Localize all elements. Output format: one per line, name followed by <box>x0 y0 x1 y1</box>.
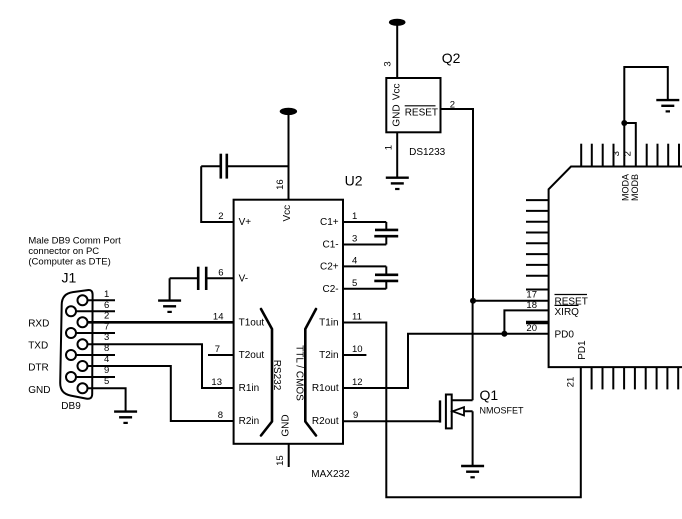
svg-text:10: 10 <box>352 344 363 355</box>
note text <box>28 235 121 267</box>
wire Q2 pin 3 <box>396 25 398 78</box>
wire R1out to PD0 <box>343 334 549 388</box>
overline XIRQ (MCU) <box>555 304 579 306</box>
svg-text:T1in: T1in <box>319 318 338 329</box>
svg-text:R1in: R1in <box>239 383 260 394</box>
capacitor (V+ charge pump to Vcc) <box>201 154 288 179</box>
wire Q1 source to ground <box>472 411 474 466</box>
svg-text:3: 3 <box>383 61 394 66</box>
svg-text:MAX232: MAX232 <box>311 469 350 480</box>
svg-text:9: 9 <box>353 410 358 421</box>
svg-text:12: 12 <box>352 377 363 388</box>
svg-text:R2in: R2in <box>239 416 260 427</box>
wire J1 pin2 RXD to T1out <box>88 321 234 324</box>
svg-text:18: 18 <box>526 300 537 311</box>
wire Vcc to pin 16 <box>288 114 290 200</box>
svg-text:7: 7 <box>215 344 220 355</box>
svg-text:11: 11 <box>352 312 362 323</box>
svg-text:MODB: MODB <box>630 174 640 201</box>
svg-text:Male DB9 Comm Port: Male DB9 Comm Port <box>28 235 121 246</box>
svg-text:15: 15 <box>275 455 286 466</box>
svg-text:C2+: C2+ <box>320 261 339 272</box>
wire J1 pin3 TXD to R1in <box>88 344 234 388</box>
J1 pin 4 <box>78 354 110 371</box>
power Vcc (Q2 pin 3) <box>389 19 406 26</box>
IC Q2 DS1233 box <box>386 78 440 132</box>
svg-text:21: 21 <box>566 377 577 388</box>
svg-text:XIRQ: XIRQ <box>555 307 580 318</box>
ground (V- cap) <box>158 301 181 312</box>
svg-text:6: 6 <box>218 267 223 278</box>
svg-text:1: 1 <box>104 289 109 300</box>
svg-text:U2: U2 <box>345 172 363 188</box>
wire MCU pin 3 MODA <box>623 123 625 167</box>
svg-text:PD1: PD1 <box>577 340 588 360</box>
node junction XIRQ/PD0 <box>501 331 507 337</box>
svg-text:DB9: DB9 <box>61 401 81 412</box>
capacitor C2 (C2+/C2-) <box>343 266 398 288</box>
svg-text:2: 2 <box>218 211 223 222</box>
microcontroller U? body (partial) <box>549 167 682 368</box>
ground (DB9 pin5) <box>114 412 137 423</box>
svg-text:13: 13 <box>211 377 222 388</box>
svg-text:T2in: T2in <box>319 350 338 361</box>
svg-text:8: 8 <box>218 410 223 421</box>
wire XIRQ tap <box>504 310 548 333</box>
svg-text:C1-: C1- <box>322 240 338 251</box>
pin 10 stub <box>343 354 366 356</box>
svg-text:Vcc: Vcc <box>282 205 293 222</box>
svg-text:RXD: RXD <box>28 318 49 329</box>
J1 pin 9 <box>66 365 115 382</box>
svg-text:C2-: C2- <box>322 284 338 295</box>
svg-text:2: 2 <box>622 151 633 156</box>
J1 pin 6 <box>66 300 115 317</box>
svg-text:V-: V- <box>239 273 248 284</box>
wire Q2 pin 1 to ground <box>396 132 398 177</box>
J1 pin 5 <box>78 376 110 393</box>
svg-text:T2out: T2out <box>239 350 265 361</box>
svg-text:GND: GND <box>281 414 292 436</box>
svg-text:GND: GND <box>392 104 403 126</box>
MCU top pin stubs <box>581 144 679 167</box>
svg-text:20: 20 <box>526 323 537 334</box>
svg-text:T1out: T1out <box>239 318 265 329</box>
svg-text:1: 1 <box>384 145 395 150</box>
power Vcc (MAX232 pin 16) <box>280 108 297 115</box>
svg-text:TXD: TXD <box>28 341 48 352</box>
svg-text:DS1233: DS1233 <box>409 147 446 158</box>
ground (Q2 pin 1) <box>386 178 409 189</box>
svg-text:9: 9 <box>104 365 109 376</box>
svg-text:J1: J1 <box>62 270 77 286</box>
svg-text:6: 6 <box>104 300 109 311</box>
svg-text:2: 2 <box>104 311 109 322</box>
svg-text:Vcc: Vcc <box>392 83 403 100</box>
overline RESET (MCU) <box>555 294 588 296</box>
svg-text:3: 3 <box>104 332 109 343</box>
svg-text:4: 4 <box>104 354 109 365</box>
pin 7 stub <box>208 354 234 356</box>
svg-text:7: 7 <box>104 321 109 332</box>
transistor Q1 NMOSFET <box>440 395 473 429</box>
svg-text:DTR: DTR <box>28 363 49 374</box>
svg-text:MODA: MODA <box>620 174 630 201</box>
svg-text:GND: GND <box>28 385 50 396</box>
MCU bottom pin stubs <box>592 367 679 389</box>
svg-text:4: 4 <box>352 255 357 266</box>
wire cap to V+ pin 2 <box>201 166 233 222</box>
wire RESET net to MCU pin 17 <box>473 300 549 302</box>
svg-text:16: 16 <box>275 179 286 190</box>
MCU left pin stubs <box>526 200 549 289</box>
svg-text:V+: V+ <box>239 217 252 228</box>
svg-text:(Computer as DTE): (Computer as DTE) <box>28 257 110 268</box>
pin 15 stub <box>288 444 290 467</box>
svg-text:C1+: C1+ <box>320 217 339 228</box>
J1 pin 3 <box>78 332 110 349</box>
wire MODA/MODB to ground <box>624 67 668 123</box>
svg-text:NMOSFET: NMOSFET <box>480 406 525 416</box>
J1 pin 1 <box>78 289 116 306</box>
bracket TTL/CMOS <box>305 309 316 436</box>
svg-text:3: 3 <box>352 234 357 245</box>
J1 pin 2 <box>78 311 110 328</box>
bracket RS232 <box>261 309 272 436</box>
capacitor (V- to ground) <box>170 267 234 290</box>
svg-text:5: 5 <box>104 376 109 387</box>
connector J1 DB9 shell <box>60 290 92 399</box>
svg-text:1: 1 <box>352 211 357 222</box>
svg-text:5: 5 <box>352 278 357 289</box>
J1 pin 7 <box>66 321 115 338</box>
node junction RESET/drain <box>470 298 476 304</box>
node junction MODA/MODB <box>621 120 627 126</box>
J1 pin 8 <box>66 343 115 360</box>
svg-text:8: 8 <box>104 343 109 354</box>
wire Q1 drain up to RESET net <box>472 301 474 401</box>
MCU thick stub pin 19 <box>526 321 549 325</box>
svg-text:Q2: Q2 <box>442 50 461 66</box>
op-amp U2 MAX232 box <box>234 200 343 444</box>
wire J1 pin5 to ground <box>88 388 126 411</box>
svg-text:Q1: Q1 <box>480 387 499 403</box>
capacitor C1 (C1+/C1-) <box>343 222 398 245</box>
svg-text:R1out: R1out <box>312 383 339 394</box>
svg-text:connector on PC: connector on PC <box>28 246 99 257</box>
wire J1 pin4 DTR to R2in <box>88 366 234 421</box>
wire Q2 pin 2 to RESET and Q1 drain <box>441 109 474 301</box>
wire T1in to PD1 (bottom loop) <box>343 323 581 498</box>
ground (MODA/MODB) <box>656 100 679 111</box>
overline RESET (Q2) <box>405 105 436 107</box>
svg-text:14: 14 <box>213 312 224 323</box>
wire R2out to Q1 gate <box>343 420 440 422</box>
svg-text:R2out: R2out <box>312 416 339 427</box>
svg-text:TTL / CMOS: TTL / CMOS <box>294 345 305 401</box>
wire cap to ground <box>169 278 171 300</box>
wire MCU pin 2 MODB <box>624 123 636 167</box>
svg-text:RESET: RESET <box>405 107 438 118</box>
svg-text:PD0: PD0 <box>555 330 575 341</box>
svg-text:3: 3 <box>611 151 622 156</box>
ground (Q1 source) <box>461 466 484 477</box>
